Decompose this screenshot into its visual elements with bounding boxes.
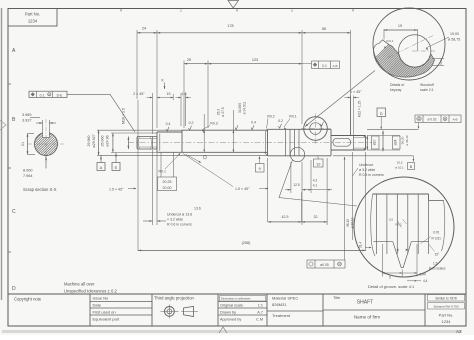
svg-text:ø24: ø24 (394, 139, 398, 145)
svg-text:0.1: 0.1 (40, 93, 45, 97)
svg-text:R 0.5 in corners: R 0.5 in corners (359, 173, 384, 177)
title cell (323, 309, 425, 311)
svg-text:ø 34.911: ø 34.911 (243, 101, 247, 114)
groove detail top step right (428, 194, 430, 201)
dim 24 thread length (136, 30, 138, 99)
svg-text:Unspecified tolerances ± 0.2: Unspecified tolerances ± 0.2 (64, 289, 117, 294)
thread start line right (353, 136, 355, 151)
svg-text:4.1: 4.1 (313, 184, 318, 188)
svg-text:36.15: 36.15 (346, 219, 350, 227)
svg-text:Issue No: Issue No (93, 296, 110, 301)
svg-text:1.5 × 45°: 1.5 × 45° (109, 188, 124, 192)
surface check right (321, 122, 324, 127)
page edge shadow left (1, 8, 3, 300)
groove V shape (393, 242, 412, 268)
svg-text:M: M (48, 94, 50, 96)
svg-text:ø 58,75: ø 58,75 (448, 38, 460, 42)
key slot in section E (333, 138, 351, 146)
svg-text:0.4: 0.4 (166, 122, 171, 126)
groove floor lines (374, 241, 393, 243)
section B chamfer line (159, 134, 161, 151)
svg-text:× 3.2 wide: × 3.2 wide (167, 218, 183, 222)
svg-text:R 0,1: R 0,1 (387, 39, 394, 43)
svg-text:10.2: 10.2 (439, 59, 443, 65)
scrap section centerlines (45, 119, 47, 169)
svg-text:D-E: D-E (57, 94, 63, 98)
thread end chamfer arcs (138, 137, 139, 149)
undercut dim lines left (152, 150, 154, 225)
dim 123 (208, 63, 302, 65)
ext lines to shaft left (97, 129, 185, 131)
svg-text:25.000: 25.000 (101, 136, 105, 147)
shaft centerline (128, 142, 372, 144)
position frame 0.1 A-B (302, 63, 312, 65)
datum B box (408, 163, 415, 170)
svg-text:2 × 45°: 2 × 45° (133, 92, 145, 96)
svg-text:keyway: keyway (390, 88, 402, 92)
svg-text:Details of: Details of (390, 83, 404, 87)
datum B leader right (412, 156, 414, 162)
section D chamfer line (264, 131, 266, 152)
zone tick left 2 (8, 167, 11, 169)
zone tick left 3 (8, 251, 11, 253)
svg-text:13.6: 13.6 (194, 207, 201, 211)
svg-text:123: 123 (252, 58, 258, 62)
svg-text:Similar to 7878: Similar to 7878 (435, 297, 456, 301)
material cell (267, 310, 323, 312)
shaft thread end section (137, 137, 157, 150)
zone tick left 1 (8, 83, 11, 85)
top centering triangle (228, 1, 239, 9)
svg-text:3: 3 (291, 9, 293, 13)
svg-text:ø 27.9: ø 27.9 (221, 107, 225, 117)
svg-text:19,00: 19,00 (450, 32, 459, 36)
part number box (8, 9, 57, 27)
svg-text:Name of firm: Name of firm (354, 315, 380, 320)
zone tick top 3 (352, 9, 354, 12)
svg-text:M16 × 1.5: M16 × 1.5 (122, 108, 126, 124)
fold mark left (0, 120, 6, 130)
svg-text:Treatment: Treatment (272, 313, 291, 318)
svg-text:Both scales: Both scales (429, 267, 446, 271)
svg-text:Drawn by: Drawn by (220, 311, 236, 315)
arrow 31.4 to edge (365, 247, 371, 249)
svg-text:Undercut: Undercut (359, 163, 373, 167)
svg-text:Dimensions in millimetres: Dimensions in millimetres (221, 297, 251, 301)
svg-text:Part No.: Part No. (25, 12, 40, 17)
title block outline (8, 293, 466, 295)
leader step corner to chamfer text (183, 154, 233, 187)
zone tick top 1 (120, 9, 122, 12)
svg-text:12.5: 12.5 (293, 183, 300, 187)
leader from frame to thread (67, 94, 135, 132)
svg-text:56: 56 (322, 27, 326, 31)
box 9 below step (259, 156, 261, 164)
svg-text:Copyright note: Copyright note (14, 297, 42, 302)
svg-text:Part No.: Part No. (439, 313, 454, 318)
section D outline (267, 129, 269, 156)
svg-text:ø0.05: ø0.05 (320, 263, 329, 267)
groove detail left edge wavy (371, 194, 375, 256)
svg-text:X: X (161, 78, 164, 83)
thread runout line (152, 137, 154, 150)
svg-text:R 0,51: R 0,51 (432, 237, 442, 241)
svg-text:A: A (100, 165, 103, 170)
svg-text:A-B: A-B (452, 118, 457, 122)
page edge shadow bottom (2, 330, 462, 333)
svg-text:ø 3.2 wide: ø 3.2 wide (359, 168, 375, 172)
svg-text:ø24.96: ø24.96 (106, 135, 110, 146)
svg-text:Subame Ref 9.790: Subame Ref 9.790 (433, 305, 458, 309)
svg-text:0.2: 0.2 (278, 119, 283, 123)
svg-text:15°: 15° (435, 253, 441, 257)
shaft right end face (365, 136, 367, 151)
scrap section hatching (8, 132, 87, 158)
svg-text:ø 10,1: ø 10,1 (395, 165, 404, 169)
svg-text:1.5 × 45°: 1.5 × 45° (235, 187, 250, 191)
datum A box (97, 163, 105, 171)
svg-text:ø20: ø20 (373, 139, 377, 145)
groove dims 2.44 (416, 244, 418, 277)
section B outline (156, 132, 158, 152)
overall dim 258 (137, 100, 139, 251)
concentricity leader (418, 123, 420, 129)
svg-text:26.3: 26.3 (217, 109, 221, 116)
svg-text:Scrap section X-X: Scrap section X-X (23, 187, 57, 192)
keyway detail circle (373, 8, 445, 80)
svg-text:Woodruff: Woodruff (420, 83, 434, 87)
svg-text:15: 15 (167, 92, 171, 96)
svg-text:M: M (338, 262, 340, 266)
woodruff key circle (399, 35, 431, 67)
groove detail circle small (290, 147, 304, 161)
svg-text:R0.2: R0.2 (267, 115, 274, 119)
svg-text:Original scale: Original scale (220, 304, 243, 308)
box 10 keyway depth (314, 159, 324, 167)
right thread minor lines (354, 136, 366, 138)
thread minor lines (140, 138, 158, 140)
svg-text:21: 21 (21, 142, 25, 146)
svg-text:scale 2:1: scale 2:1 (420, 88, 434, 92)
dia 20 dim (366, 136, 368, 151)
dia 29.960 dim line (98, 130, 100, 155)
dia 26.3 dim inside (203, 114, 205, 152)
svg-text:5: 5 (389, 276, 391, 280)
dia 24 dim (382, 131, 384, 152)
svg-text:32: 32 (314, 215, 318, 219)
surface check mid (235, 125, 238, 130)
svg-text:R 0.6 in corners: R 0.6 in corners (167, 223, 192, 227)
svg-text:10,2: 10,2 (397, 160, 403, 164)
svg-text:42.5: 42.5 (282, 215, 289, 219)
svg-text:Detail of groove. scale 4:1: Detail of groove. scale 4:1 (368, 284, 415, 289)
issue rows (90, 301, 152, 303)
svg-text:Approved by: Approved by (220, 318, 241, 322)
dim 25 (183, 61, 185, 129)
leader small groove to big detail (279, 160, 357, 206)
svg-text:1:1: 1:1 (258, 304, 263, 308)
svg-text:D: D (12, 286, 16, 292)
svg-text:29.960: 29.960 (87, 136, 91, 147)
svg-text:(258): (258) (242, 241, 252, 245)
groove detail top surface (373, 193, 429, 195)
svg-text:4,4: 4,4 (423, 279, 428, 283)
groove V wall arrows (397, 249, 399, 252)
svg-text:826M31: 826M31 (272, 302, 287, 307)
svg-text:SHAFT: SHAFT (357, 300, 373, 306)
svg-text:1234: 1234 (442, 319, 452, 324)
scrap section circle (35, 133, 58, 156)
svg-text:M: M (444, 117, 446, 121)
svg-text:Undercut ø 13.6: Undercut ø 13.6 (167, 213, 192, 217)
svg-text:20.25: 20.25 (163, 180, 172, 184)
svg-text:R0.1: R0.1 (289, 115, 296, 119)
svg-text:A-B: A-B (332, 64, 337, 68)
svg-text:8.000: 8.000 (23, 169, 33, 173)
svg-text:10: 10 (316, 162, 320, 166)
svg-text:25: 25 (187, 58, 191, 62)
svg-text:24: 24 (142, 27, 146, 31)
svg-text:9: 9 (259, 167, 261, 171)
svg-text:0,76: 0,76 (433, 231, 439, 235)
groove lines in D (285, 129, 287, 156)
groove detail verticals (375, 194, 377, 254)
svg-text:M12 × 1.25: M12 × 1.25 (358, 101, 362, 118)
title block col dividers (89, 294, 91, 326)
svg-text:3.989: 3.989 (22, 113, 32, 117)
ext lines right end (367, 135, 400, 137)
scale cells (220, 296, 266, 302)
groove dim 5 (381, 244, 383, 277)
svg-text:19: 19 (398, 24, 402, 28)
similar-to box (428, 295, 465, 302)
position frame D-E (29, 91, 67, 97)
svg-text:A2: A2 (456, 329, 462, 334)
groove small dims below (290, 162, 292, 193)
svg-text:A.7: A.7 (257, 311, 263, 315)
svg-text:31.4: 31.4 (359, 242, 363, 248)
svg-text:ø 36.10: ø 36.10 (351, 217, 355, 228)
svg-text:C.M: C.M (256, 318, 263, 322)
svg-text:20.00: 20.00 (163, 186, 172, 190)
projection symbol cone (184, 306, 194, 316)
circularity leader (344, 157, 346, 260)
svg-text:178: 178 (227, 24, 233, 28)
groove detail right edge wavy (442, 201, 445, 252)
substance ref box (428, 303, 465, 310)
projection symbol circle (165, 307, 175, 317)
short leader arrow below step (186, 155, 201, 163)
dim 21 scrap (27, 134, 29, 155)
undercut jog at D bottom (265, 152, 268, 156)
datum E box (112, 163, 120, 171)
svg-text:Title: Title (333, 295, 340, 300)
ext line M12 undercut (352, 152, 354, 240)
woodruff keyway inner circle (310, 123, 322, 135)
key circle centerlines (412, 50, 436, 52)
svg-text:Date: Date (93, 303, 102, 308)
svg-text:1234: 1234 (28, 19, 38, 24)
inspection triangle below (219, 327, 227, 333)
dia 25.000 dim line (112, 133, 114, 153)
svg-text:0.1: 0.1 (322, 64, 327, 68)
datum D box (377, 108, 386, 117)
thread dia dim line (127, 137, 129, 150)
svg-text:E: E (115, 165, 118, 170)
concentricity frame (415, 115, 461, 123)
svg-text:Machine all over: Machine all over (64, 282, 95, 287)
svg-text:2: 2 (180, 9, 182, 13)
dim 178 (157, 32, 302, 34)
svg-text:7.964: 7.964 (23, 174, 33, 178)
svg-text:1,5: 1,5 (433, 262, 438, 266)
svg-text:34.960: 34.960 (238, 103, 242, 113)
dim 19 keyway (383, 29, 385, 40)
groove detail circle (354, 177, 454, 277)
svg-text:First used on: First used on (93, 310, 116, 315)
leader keyway to detail circle (305, 71, 375, 127)
svg-text:ø29.927: ø29.927 (92, 134, 96, 147)
svg-text:0,5: 0,5 (389, 218, 393, 222)
svg-text:1 × 45°: 1 × 45° (350, 90, 362, 94)
right end chamfers (363, 136, 365, 138)
svg-text:ø 36,10: ø 36,10 (405, 135, 409, 146)
section C outline (181, 130, 183, 152)
svg-text:2,44: 2,44 (420, 273, 426, 277)
svg-text:R0.1: R0.1 (159, 170, 166, 174)
svg-text:R0.3: R0.3 (210, 122, 217, 126)
svg-text:C: C (12, 209, 16, 215)
svg-text:D: D (380, 111, 383, 116)
svg-text:4.2: 4.2 (313, 179, 318, 183)
surface symbol circle on leader (203, 156, 206, 159)
datum E leader (115, 153, 117, 163)
dim 56 keyway (301, 30, 303, 124)
section E outline (330, 129, 332, 156)
datum A leader (100, 155, 102, 162)
dim 10.2 keyway depth (432, 58, 444, 60)
scrap section keyway slot (43, 131, 50, 138)
svg-text:Equivalent part: Equivalent part (93, 317, 121, 322)
dia 34.9 dim inside (232, 110, 234, 152)
svg-text:ø 0.02: ø 0.02 (427, 118, 436, 122)
svg-text:36,20: 36,20 (401, 136, 405, 144)
boxed dim 20.25 (158, 177, 177, 191)
circularity frame below (307, 260, 345, 268)
woodruff keyway circle on shaft (304, 117, 328, 141)
zone tick top 2 (236, 9, 238, 12)
svg-text:0.2: 0.2 (189, 121, 194, 125)
svg-text:3.937: 3.937 (22, 119, 32, 123)
svg-text:Material SPEC: Material SPEC (272, 296, 298, 301)
svg-text:0.4: 0.4 (251, 121, 256, 125)
keyway pocket hatched (373, 40, 434, 77)
svg-text:Third angle projection: Third angle projection (154, 296, 195, 301)
